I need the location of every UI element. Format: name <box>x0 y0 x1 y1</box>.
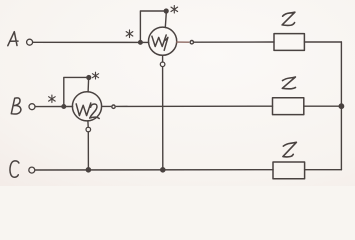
load Z1 <box>274 34 304 51</box>
wire Z3 to bus <box>305 169 342 171</box>
pin label 2 of W2 <box>90 104 100 119</box>
wire W1 to bottom node <box>162 55 164 62</box>
wire Z2 to bus <box>304 105 342 107</box>
node C label <box>10 161 19 177</box>
wire Z1 to bus <box>304 41 341 43</box>
node below W2 <box>86 127 91 132</box>
pin label 1 of W1 <box>164 37 168 50</box>
wire W1 to node <box>177 41 189 43</box>
wire bracket to W1 top <box>165 12 166 27</box>
wire node to Z2 <box>116 105 272 107</box>
value label Z3 <box>283 142 297 157</box>
terminal B <box>29 104 35 110</box>
node B label <box>11 98 21 114</box>
node A label <box>8 32 18 46</box>
wire W2 voltage coil to line C <box>87 132 89 170</box>
wire W2 to node <box>102 105 111 107</box>
wire W1 voltage coil bracket <box>140 11 166 42</box>
junction W1 coil on C <box>161 168 165 172</box>
wattmeter W1 <box>149 27 177 55</box>
wire A to W1 <box>33 41 149 43</box>
wire W2 to bottom node <box>87 121 89 127</box>
junction W1 voltage tap <box>139 41 143 45</box>
asterisk W2 voltage coil <box>92 72 98 79</box>
node after W2 <box>112 105 115 108</box>
wire W1 voltage coil to line C <box>162 67 164 170</box>
terminal C <box>29 167 35 173</box>
wattmeter W2 <box>72 92 101 121</box>
junction W2 coil on C <box>86 168 90 172</box>
value label Z2 <box>282 77 295 89</box>
terminal A <box>27 39 33 45</box>
wire B to W2 <box>35 106 72 108</box>
load Z3 <box>273 162 305 179</box>
wire C to Z3 <box>35 169 273 171</box>
asterisk W1 voltage coil <box>171 6 178 13</box>
wire right bus <box>340 42 342 170</box>
value label Z1 <box>282 12 295 25</box>
junction bracket corner W1 <box>164 9 168 13</box>
wire bracket to W2 top <box>87 79 90 92</box>
wire node to Z1 <box>194 41 274 43</box>
junction bracket corner W2 <box>87 76 91 80</box>
wire W2 voltage coil bracket <box>64 77 89 106</box>
asterisk W2 current coil <box>49 95 56 102</box>
junction W2 voltage tap <box>62 105 66 109</box>
node below W1 <box>160 62 165 67</box>
asterisk W1 current coil <box>126 30 133 38</box>
load Z2 <box>273 98 304 115</box>
node after W1 <box>190 41 193 44</box>
junction Z2 bus <box>339 104 343 108</box>
